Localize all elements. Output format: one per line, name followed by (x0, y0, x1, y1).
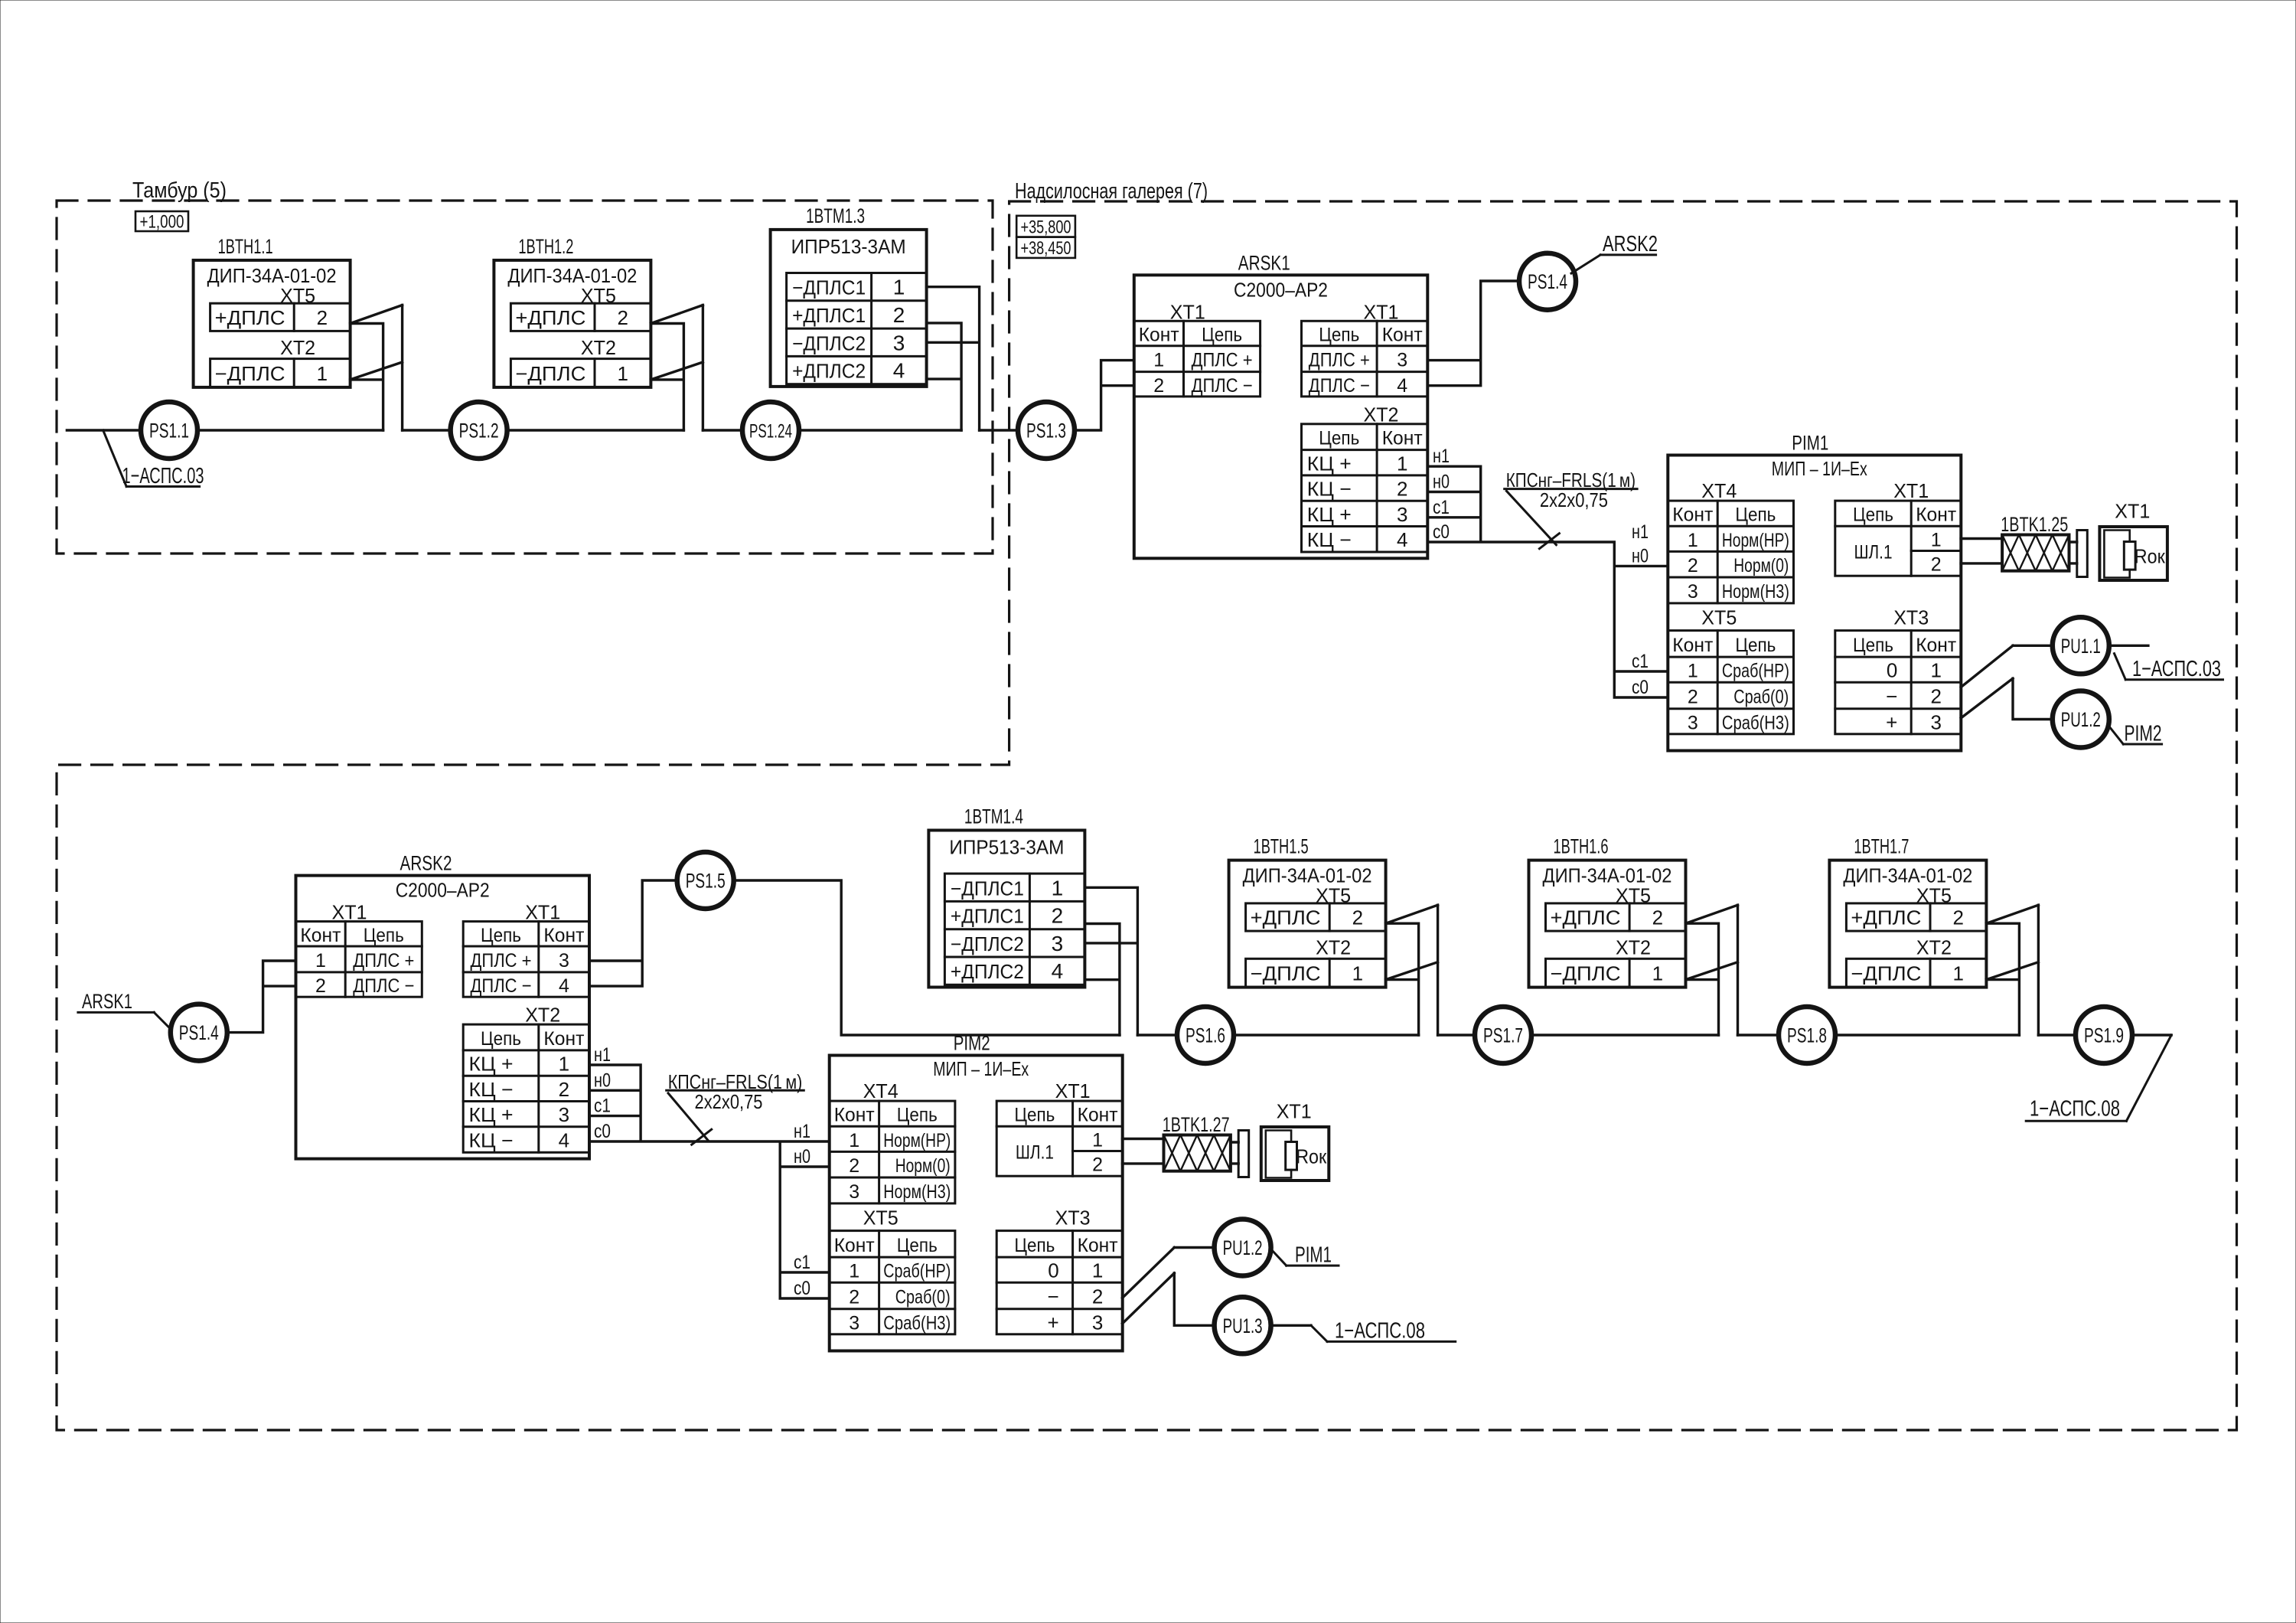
svg-text:2: 2 (849, 1287, 859, 1308)
svg-text:3: 3 (893, 331, 905, 354)
svg-text:Норм(Н3): Норм(Н3) (883, 1181, 951, 1203)
svg-text:ХТ2: ХТ2 (280, 336, 315, 359)
svg-text:с0: с0 (594, 1121, 611, 1142)
svg-text:ДПЛС +: ДПЛС + (353, 950, 414, 972)
svg-text:Конт: Конт (1078, 1105, 1119, 1126)
svg-text:2: 2 (893, 303, 905, 327)
svg-text:PS1.1: PS1.1 (149, 420, 189, 442)
svg-text:Цепь: Цепь (1202, 325, 1242, 346)
svg-text:3: 3 (559, 950, 569, 972)
svg-text:PU1.3: PU1.3 (1223, 1314, 1263, 1337)
svg-text:Сраб(НР): Сраб(НР) (883, 1261, 951, 1282)
svg-text:1: 1 (617, 362, 628, 385)
svg-text:ХТ2: ХТ2 (1916, 936, 1952, 959)
svg-text:Норм(НР): Норм(НР) (883, 1130, 951, 1151)
svg-text:Цепь: Цепь (1014, 1235, 1055, 1256)
svg-text:ARSK1: ARSK1 (1238, 251, 1290, 274)
svg-text:Конт: Конт (543, 925, 585, 946)
wire loop connection at 1BTH1.2 (651, 305, 703, 431)
terminal box ХТ1 with Rок (2099, 500, 2167, 581)
svg-text:Цепь: Цепь (1014, 1105, 1055, 1126)
svg-text:4: 4 (1052, 959, 1064, 983)
wire 1BTH1.1 to PS1.2 (403, 429, 451, 431)
svg-text:2: 2 (1397, 478, 1407, 501)
svg-text:+38,450: +38,450 (1021, 238, 1071, 259)
svg-text:−: − (1886, 685, 1897, 708)
svg-text:1BTH1.7: 1BTH1.7 (1854, 835, 1909, 858)
svg-text:−ДПЛС1: −ДПЛС1 (951, 877, 1024, 900)
terminal box ХТ1 with Rок (1261, 1100, 1329, 1181)
svg-text:+ДПЛС: +ДПЛС (1851, 906, 1921, 929)
svg-text:ДПЛС −: ДПЛС − (353, 975, 414, 997)
svg-text:3: 3 (1092, 1311, 1103, 1334)
svg-text:2: 2 (315, 975, 326, 997)
svg-text:ХТ2: ХТ2 (1364, 403, 1399, 426)
svg-text:Цепь: Цепь (1853, 635, 1893, 656)
svg-text:3: 3 (1930, 710, 1941, 733)
svg-text:−ДПЛС: −ДПЛС (215, 362, 285, 385)
svg-text:3: 3 (1397, 350, 1407, 371)
svg-text:Цепь: Цепь (1319, 428, 1359, 449)
svg-text:+ДПЛС: +ДПЛС (1551, 906, 1621, 929)
svg-text:Конт: Конт (1382, 428, 1424, 449)
svg-text:PIM2: PIM2 (954, 1032, 990, 1055)
svg-text:ARSK2: ARSK2 (400, 852, 452, 875)
svg-text:Конт: Конт (1139, 325, 1180, 346)
svg-text:2: 2 (317, 306, 328, 329)
svg-text:Сраб(0): Сраб(0) (1733, 687, 1789, 708)
svg-text:ХТ1: ХТ1 (525, 901, 560, 924)
svg-text:4: 4 (1397, 375, 1407, 397)
svg-text:PS1.6: PS1.6 (1186, 1024, 1225, 1047)
wire from PS1.9 and reference flag 1-АСПС.08 (2026, 1035, 2171, 1122)
svg-text:Конт: Конт (1078, 1235, 1119, 1256)
svg-text:1: 1 (849, 1261, 859, 1282)
loop node PS1.9 (2076, 1007, 2132, 1063)
reference flag 1-АСПС.03 (103, 430, 204, 488)
svg-text:+1,000: +1,000 (140, 212, 184, 233)
loop node PS1.4 (from ARSK1) (171, 1004, 227, 1061)
smoke detector 1BTH1.7 (ДИП-34А-01-02) (1829, 835, 1986, 988)
svg-text:1: 1 (1352, 962, 1363, 985)
svg-text:PS1.7: PS1.7 (1483, 1024, 1523, 1047)
svg-text:ХТ2: ХТ2 (525, 1004, 560, 1027)
wires from 1BTM1.3 terminals to loop buses (927, 287, 980, 430)
svg-text:с0: с0 (794, 1278, 810, 1299)
svg-text:−ДПЛС2: −ДПЛС2 (792, 331, 866, 354)
svg-text:1: 1 (1052, 876, 1064, 900)
room label Надсилосная галерея (7) (1015, 179, 1208, 204)
svg-text:Цепь: Цепь (481, 1028, 521, 1050)
svg-text:КЦ +: КЦ + (1307, 503, 1352, 526)
svg-text:Rок: Rок (1296, 1145, 1327, 1168)
wire PS1.4 to ARSK2 XT1 (1,2) (228, 961, 296, 1033)
svg-text:1: 1 (1930, 659, 1941, 682)
svg-text:с0: с0 (1433, 521, 1450, 543)
svg-text:Цепь: Цепь (897, 1235, 938, 1256)
svg-text:Конт: Конт (1916, 505, 1957, 526)
wire PS1.6 to 1BTH1.5 (1234, 1034, 1419, 1036)
svg-text:2: 2 (1652, 906, 1663, 929)
svg-text:ШЛ.1: ШЛ.1 (1016, 1142, 1054, 1164)
svg-text:ДПЛС +: ДПЛС + (471, 950, 532, 972)
svg-text:1BTH1.1: 1BTH1.1 (218, 235, 273, 258)
svg-text:+ДПЛС1: +ДПЛС1 (792, 304, 866, 327)
wire PS1.2 to 1BTH1.2 (507, 429, 684, 431)
svg-text:2: 2 (1052, 904, 1064, 928)
svg-text:КЦ +: КЦ + (1307, 452, 1352, 475)
manual call point 1BTM1.3 (ИПР513-3АМ) (771, 204, 927, 387)
svg-text:Цепь: Цепь (364, 925, 404, 946)
svg-text:КЦ −: КЦ − (1307, 478, 1352, 501)
svg-text:Норм(Н3): Норм(Н3) (1722, 581, 1789, 603)
svg-text:3: 3 (559, 1103, 569, 1126)
svg-text:Конт: Конт (1672, 505, 1714, 526)
loop node PS1.6 (1177, 1007, 1234, 1063)
wire loop entry to PS1.1 (67, 429, 141, 431)
svg-text:4: 4 (1397, 528, 1407, 551)
svg-text:PIM2: PIM2 (2125, 722, 2162, 746)
svg-text:ДПЛС +: ДПЛС + (1192, 350, 1253, 371)
svg-text:1BTH1.5: 1BTH1.5 (1254, 835, 1309, 858)
svg-text:МИП – 1И–Ех: МИП – 1И–Ех (933, 1057, 1029, 1080)
svg-text:PS1.24: PS1.24 (749, 421, 792, 442)
svg-text:4: 4 (559, 975, 569, 997)
svg-text:2: 2 (1688, 555, 1698, 576)
svg-text:1: 1 (893, 276, 905, 299)
svg-text:н1: н1 (794, 1121, 810, 1142)
svg-text:ХТ5: ХТ5 (863, 1207, 899, 1229)
wire ARSK1 XT1 (3,4) to PS1.4 (1427, 281, 1518, 386)
svg-text:Норм(0): Норм(0) (1733, 555, 1789, 576)
svg-text:с0: с0 (1632, 677, 1649, 698)
svg-text:1: 1 (1931, 530, 1942, 551)
svg-text:+ДПЛС1: +ДПЛС1 (951, 905, 1024, 928)
output node PU1.1 (2053, 617, 2109, 674)
svg-text:Цепь: Цепь (1735, 505, 1776, 526)
svg-text:1: 1 (1153, 350, 1164, 371)
connector plug (1231, 1131, 1249, 1177)
svg-text:2: 2 (1153, 375, 1164, 397)
wire ARSK2 XT1 (3,4) to PS1.5 (589, 880, 677, 986)
svg-text:ИПР513-3АМ: ИПР513-3АМ (791, 235, 906, 258)
svg-text:С2000–АР2: С2000–АР2 (1234, 278, 1328, 301)
svg-text:с1: с1 (594, 1096, 611, 1117)
svg-text:н1: н1 (1632, 521, 1649, 543)
wire loop connection at 1BTH1.5 (1386, 905, 1438, 1035)
isolating barrier PIM2 (МИП-1И-Ex) (830, 1032, 1123, 1351)
cable marker КПСнг-FRLS(1м) 2x2x0,75 (top) (1505, 469, 1637, 549)
svg-text:ХТ1: ХТ1 (1277, 1100, 1312, 1123)
svg-text:Надсилосная галерея (7): Надсилосная галерея (7) (1015, 179, 1208, 204)
svg-text:1BTM1.4: 1BTM1.4 (964, 805, 1023, 828)
wire from PU1.1 and reference flag 1-АСПС.03 (2109, 645, 2223, 681)
svg-text:н0: н0 (794, 1146, 810, 1167)
svg-text:4: 4 (559, 1129, 569, 1152)
loop node PS1.3 (1018, 402, 1075, 459)
svg-text:−ДПЛС: −ДПЛС (515, 362, 585, 385)
svg-text:0: 0 (1048, 1259, 1058, 1282)
svg-text:2: 2 (559, 1078, 569, 1101)
svg-text:ДИП-34А-01-02: ДИП-34А-01-02 (507, 264, 637, 287)
svg-text:Rок: Rок (2135, 545, 2166, 568)
wires КЦ taps ARSK2 XT2 to PIM2 (н1 н0 с1 с0) (589, 1065, 830, 1298)
wire from PU1.3 and reference flag 1-АСПС.08 (1271, 1319, 1456, 1344)
cable section 1BTK1.25 (hatched) (2001, 513, 2069, 571)
loop node PS1.8 (1779, 1007, 1835, 1063)
wire loop connection at 1BTH1.1 (351, 305, 403, 431)
svg-text:3: 3 (849, 1181, 859, 1203)
svg-text:Конт: Конт (543, 1028, 585, 1050)
wire loop connection at 1BTH1.7 (1986, 905, 2038, 1035)
svg-text:1BTK1.27: 1BTK1.27 (1163, 1113, 1230, 1136)
svg-text:Норм(0): Норм(0) (895, 1155, 951, 1177)
svg-text:КЦ +: КЦ + (469, 1103, 514, 1126)
svg-text:КЦ −: КЦ − (1307, 528, 1352, 551)
svg-text:1: 1 (1092, 1259, 1103, 1282)
svg-text:1BTH1.2: 1BTH1.2 (518, 235, 573, 258)
svg-text:1−АСПС.03: 1−АСПС.03 (2132, 657, 2221, 681)
svg-text:КЦ −: КЦ − (469, 1129, 514, 1152)
smoke detector 1BTH1.6 (ДИП-34А-01-02) (1529, 835, 1686, 988)
svg-text:с1: с1 (1433, 497, 1450, 518)
wire 1BTM1.3 to PS1.3 (980, 429, 1018, 431)
svg-text:+ДПЛС: +ДПЛС (1251, 906, 1321, 929)
wire PS1.24 to 1BTM1.3 (798, 429, 961, 431)
wire PS1.7 to 1BTH1.6 (1531, 1034, 1719, 1036)
reference flag PIM2 (2110, 722, 2162, 746)
svg-text:КЦ −: КЦ − (469, 1078, 514, 1101)
svg-text:3: 3 (1397, 503, 1407, 526)
svg-text:1: 1 (1397, 452, 1407, 475)
svg-text:Конт: Конт (1916, 635, 1957, 656)
svg-text:ХТ1: ХТ1 (332, 901, 367, 924)
svg-text:Конт: Конт (1382, 325, 1424, 346)
svg-text:ARSK1: ARSK1 (82, 990, 132, 1013)
svg-text:ДПЛС +: ДПЛС + (1309, 350, 1370, 371)
svg-text:н0: н0 (594, 1069, 611, 1091)
svg-text:1: 1 (317, 362, 328, 385)
svg-text:ХТ1: ХТ1 (2115, 500, 2150, 523)
node labels н1 н0 с1 с0 at ARSK1 (1433, 446, 1450, 543)
svg-text:ХТ2: ХТ2 (1316, 936, 1351, 959)
node labels н1 н0 с1 с0 at PIM1 (1632, 521, 1649, 698)
loop node PS1.1 (141, 402, 197, 459)
wires PIM2 XT3 to PU1.2 / PU1.3 (1123, 1248, 1215, 1326)
room label Тамбур (5) (132, 178, 227, 203)
svg-text:PS1.3: PS1.3 (1026, 420, 1066, 442)
svg-text:ДПЛС −: ДПЛС − (1192, 375, 1253, 397)
svg-text:0: 0 (1887, 659, 1897, 682)
loop node PS1.5 (677, 852, 734, 909)
svg-text:Тамбур (5): Тамбур (5) (132, 178, 227, 203)
wire 1BTH1.2 to PS1.24 (703, 429, 743, 431)
svg-text:ХТ4: ХТ4 (863, 1079, 899, 1102)
wire 1BTH1.6 to PS1.8 (1738, 1034, 1779, 1036)
svg-text:1: 1 (1688, 530, 1698, 551)
wire 1BTH1.7 to PS1.9 (2038, 1034, 2076, 1036)
svg-text:+ДПЛС: +ДПЛС (515, 306, 585, 329)
svg-text:2: 2 (1092, 1285, 1103, 1308)
wire PS1.1 to 1BTH1.1 (197, 429, 383, 431)
output node PU1.3 (1215, 1297, 1271, 1354)
elevation mark +35,800 (1016, 216, 1075, 238)
elevation mark +38,450 (1016, 237, 1075, 259)
svg-text:2: 2 (1931, 554, 1942, 576)
elevation mark +1,000 (135, 211, 188, 233)
svg-text:+35,800: +35,800 (1021, 217, 1071, 238)
svg-text:1: 1 (315, 950, 326, 972)
svg-text:Цепь: Цепь (897, 1105, 938, 1126)
wires from 1BTM1.4 terminals to loop buses (1084, 887, 1137, 1035)
wire loop connection at 1BTH1.6 (1686, 905, 1738, 1035)
svg-text:Конт: Конт (300, 925, 341, 946)
svg-text:2х2х0,75: 2х2х0,75 (695, 1090, 763, 1113)
room boundary Надсилосная галерея (7), dashed polygon (57, 201, 2237, 1430)
svg-text:PS1.9: PS1.9 (2084, 1024, 2124, 1047)
svg-text:2: 2 (1930, 685, 1941, 708)
svg-text:ИПР513-3АМ: ИПР513-3АМ (949, 836, 1064, 859)
room boundary Тамбур (5), dashed (57, 201, 993, 554)
svg-text:ХТ3: ХТ3 (1055, 1207, 1091, 1229)
reference flag ARSK2 (1571, 232, 1658, 273)
svg-text:3: 3 (1052, 932, 1064, 955)
svg-text:1−АСПС.08: 1−АСПС.08 (1335, 1319, 1425, 1344)
svg-text:2: 2 (617, 306, 628, 329)
svg-text:−ДПЛС: −ДПЛС (1251, 962, 1321, 985)
svg-text:PS1.4: PS1.4 (179, 1021, 219, 1044)
svg-text:н0: н0 (1632, 545, 1649, 567)
svg-text:−ДПЛС1: −ДПЛС1 (792, 276, 866, 299)
svg-text:Конт: Конт (834, 1235, 876, 1256)
svg-text:с1: с1 (794, 1252, 810, 1273)
svg-text:PIM1: PIM1 (1792, 432, 1828, 455)
svg-text:2: 2 (1092, 1154, 1103, 1176)
smoke detector 1BTH1.1 (ДИП-34А-01-02) (194, 235, 351, 387)
svg-text:PU1.2: PU1.2 (2061, 708, 2101, 731)
wire 1BTM1.4 to PS1.6 (1137, 1034, 1177, 1036)
svg-text:МИП – 1И–Ех: МИП – 1И–Ех (1772, 457, 1867, 480)
svg-text:н0: н0 (1433, 472, 1450, 493)
svg-text:ДПЛС −: ДПЛС − (1309, 375, 1370, 397)
svg-text:1: 1 (1688, 661, 1698, 682)
svg-text:3: 3 (1688, 712, 1698, 733)
svg-text:+: + (1886, 710, 1897, 733)
output node PU1.2 (bottom) (1215, 1220, 1271, 1276)
cable section 1BTK1.27 (hatched) (1163, 1113, 1231, 1171)
smoke detector 1BTH1.5 (ДИП-34А-01-02) (1229, 835, 1386, 988)
svg-text:Цепь: Цепь (1735, 635, 1776, 656)
svg-text:+ДПЛС: +ДПЛС (215, 306, 285, 329)
svg-text:2: 2 (849, 1155, 859, 1177)
loop node PS1.24 (742, 402, 799, 459)
svg-text:ХТ2: ХТ2 (581, 336, 616, 359)
svg-text:+ДПЛС2: +ДПЛС2 (792, 360, 866, 383)
svg-text:2: 2 (1688, 687, 1698, 708)
wire PS1.3 to ARSK1 XT1 (1,2) (1075, 361, 1134, 430)
svg-text:2х2х0,75: 2х2х0,75 (1540, 488, 1608, 511)
svg-text:Норм(НР): Норм(НР) (1722, 530, 1789, 551)
manual call point 1BTM1.4 (ИПР513-3АМ) (928, 805, 1084, 988)
output node PU1.2 (2053, 691, 2109, 748)
svg-text:1: 1 (849, 1130, 859, 1151)
svg-text:1BTH1.6: 1BTH1.6 (1554, 835, 1609, 858)
svg-text:1BTM1.3: 1BTM1.3 (806, 204, 865, 227)
svg-text:+ДПЛС2: +ДПЛС2 (951, 960, 1024, 983)
svg-text:2: 2 (1952, 906, 1963, 929)
svg-text:PS1.2: PS1.2 (459, 420, 499, 442)
connector plug (2069, 531, 2088, 577)
wire 1BTH1.5 to PS1.7 (1438, 1034, 1476, 1036)
svg-text:ДИП-34А-01-02: ДИП-34А-01-02 (1843, 864, 1972, 887)
svg-text:1−АСПС.03: 1−АСПС.03 (122, 464, 204, 488)
svg-text:ХТ2: ХТ2 (1616, 936, 1651, 959)
svg-text:Цепь: Цепь (1319, 325, 1359, 346)
svg-text:ХТ3: ХТ3 (1893, 606, 1929, 629)
wires КЦ taps ARSK1 XT2 to PIM1 (н1 н0 с1 с0) (1427, 466, 1668, 697)
svg-text:н1: н1 (594, 1044, 611, 1066)
svg-text:PIM1: PIM1 (1295, 1243, 1332, 1268)
cable marker КПСнг-FRLS(1м) 2x2x0,75 (bottom) (667, 1070, 804, 1145)
svg-text:ДПЛС −: ДПЛС − (471, 975, 532, 997)
svg-text:3: 3 (1688, 581, 1698, 603)
svg-text:1: 1 (1652, 962, 1663, 985)
svg-text:Сраб(0): Сраб(0) (895, 1287, 951, 1308)
svg-text:ХТ4: ХТ4 (1701, 479, 1737, 502)
svg-text:Сраб(НР): Сраб(НР) (1722, 661, 1789, 682)
svg-text:Цепь: Цепь (481, 925, 521, 946)
wires PIM1 XT3 to PU1.1 / PU1.2 (1961, 645, 2053, 719)
smoke detector 1BTH1.2 (ДИП-34А-01-02) (494, 235, 651, 387)
svg-text:ДИП-34А-01-02: ДИП-34А-01-02 (1543, 864, 1672, 887)
svg-text:PU1.2: PU1.2 (1223, 1236, 1263, 1259)
svg-text:ДИП-34А-01-02: ДИП-34А-01-02 (1243, 864, 1372, 887)
svg-text:1BTK1.25: 1BTK1.25 (2001, 513, 2068, 536)
addressable expander ARSK1 (С2000-АР2) (1134, 251, 1428, 558)
svg-text:ХТ5: ХТ5 (1701, 606, 1737, 629)
svg-text:н1: н1 (1433, 446, 1450, 467)
svg-text:−ДПЛС2: −ДПЛС2 (951, 932, 1024, 955)
svg-text:−ДПЛС: −ДПЛС (1851, 962, 1921, 985)
wires ШЛ.1 from XT1 to cable 1BTK1.25 (1961, 539, 2002, 563)
svg-text:ШЛ.1: ШЛ.1 (1854, 542, 1893, 563)
svg-text:Конт: Конт (834, 1105, 876, 1126)
svg-text:+: + (1048, 1311, 1059, 1334)
node labels н1 н0 с1 с0 at ARSK2 (594, 1044, 611, 1142)
svg-text:С2000–АР2: С2000–АР2 (396, 879, 490, 902)
svg-text:1: 1 (559, 1053, 569, 1076)
svg-text:2: 2 (1352, 906, 1363, 929)
wire PS1.8 to 1BTH1.7 (1835, 1034, 2020, 1036)
svg-text:ARSK2: ARSK2 (1603, 232, 1658, 256)
svg-text:4: 4 (893, 359, 905, 383)
reference flag ARSK1 (entry) (78, 990, 171, 1029)
svg-text:PS1.5: PS1.5 (686, 870, 726, 893)
svg-text:с1: с1 (1632, 651, 1649, 672)
wire PS1.5 to 1BTM1.4 (733, 880, 1120, 1035)
addressable expander ARSK2 (С2000-АР2) (296, 852, 590, 1159)
loop node PS1.4 (to ARSK2) (1519, 253, 1576, 310)
svg-text:Конт: Конт (1672, 635, 1714, 656)
svg-text:ХТ1: ХТ1 (1055, 1079, 1091, 1102)
svg-text:1: 1 (1952, 962, 1963, 985)
svg-text:1: 1 (1092, 1130, 1103, 1151)
svg-text:КЦ +: КЦ + (469, 1053, 514, 1076)
isolating barrier PIM1 (МИП-1И-Ex) (1668, 432, 1961, 751)
svg-text:Цепь: Цепь (1853, 505, 1893, 526)
svg-text:ХТ1: ХТ1 (1893, 479, 1929, 502)
loop node PS1.2 (451, 402, 507, 459)
